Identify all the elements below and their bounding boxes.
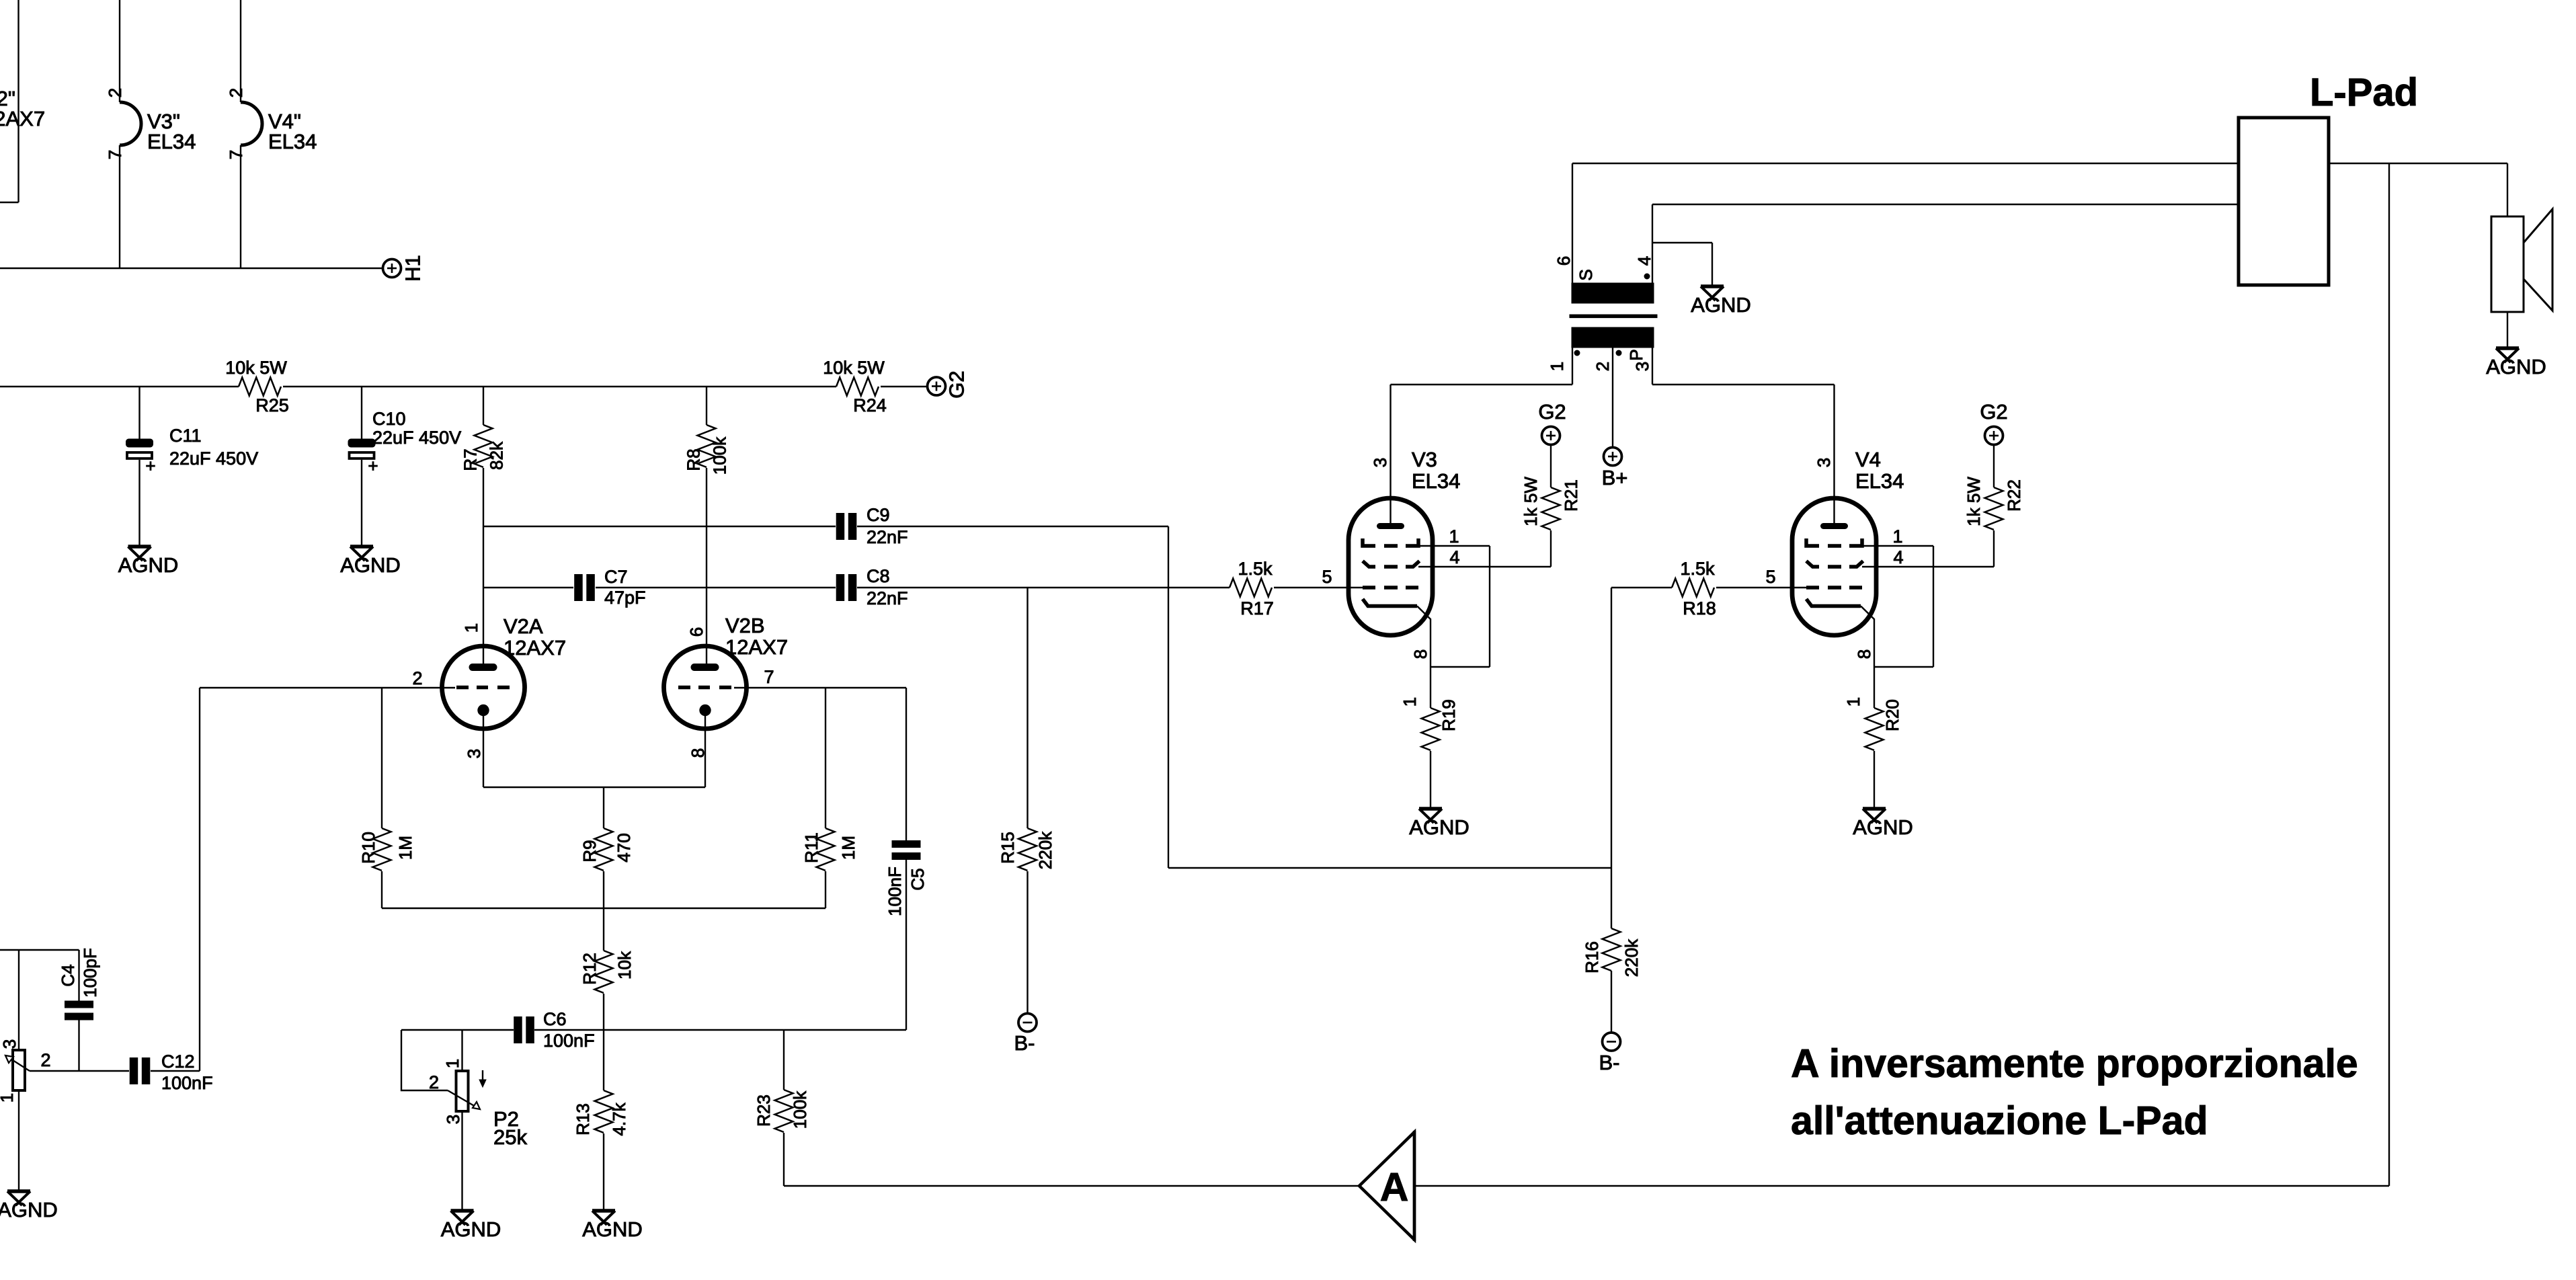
svg-text:+: + <box>145 456 155 476</box>
svg-text:1: 1 <box>442 1059 462 1068</box>
svg-text:22uF 450V: 22uF 450V <box>372 428 461 448</box>
svg-text:4.7k: 4.7k <box>609 1102 629 1135</box>
svg-text:10k 5W: 10k 5W <box>225 358 287 378</box>
svg-text:C7: C7 <box>604 567 628 587</box>
svg-text:12AX7: 12AX7 <box>0 107 45 130</box>
svg-text:4: 4 <box>1449 547 1459 567</box>
svg-text:1: 1 <box>461 623 481 633</box>
svg-text:R12: R12 <box>579 953 600 985</box>
svg-text:8: 8 <box>1410 649 1431 659</box>
svg-text:3: 3 <box>1370 458 1390 467</box>
svg-text:220k: 220k <box>1035 831 1055 869</box>
svg-text:7: 7 <box>226 150 246 159</box>
svg-text:2: 2 <box>1593 362 1613 371</box>
svg-text:C6: C6 <box>543 1009 567 1029</box>
svg-text:22nF: 22nF <box>867 527 908 547</box>
svg-text:10k: 10k <box>614 951 635 979</box>
svg-text:5: 5 <box>1765 567 1775 587</box>
svg-text:C10: C10 <box>372 409 406 429</box>
svg-text:R23: R23 <box>754 1094 774 1127</box>
svg-text:V2B: V2B <box>725 614 765 637</box>
svg-text:8: 8 <box>1854 649 1874 659</box>
svg-text:12AX7: 12AX7 <box>725 635 788 659</box>
svg-text:C9: C9 <box>867 505 890 525</box>
svg-text:2: 2 <box>105 88 125 97</box>
svg-text:1.5k: 1.5k <box>1238 559 1273 579</box>
svg-text:1k 5W: 1k 5W <box>1521 477 1541 526</box>
svg-text:1: 1 <box>1449 526 1459 547</box>
svg-text:7: 7 <box>105 150 125 159</box>
svg-text:R21: R21 <box>1561 479 1581 512</box>
svg-text:EL34: EL34 <box>1412 469 1460 493</box>
svg-text:3: 3 <box>0 1039 19 1049</box>
svg-text:5: 5 <box>1322 567 1332 587</box>
svg-text:AGND: AGND <box>1409 815 1470 839</box>
svg-text:AGND: AGND <box>2486 355 2546 378</box>
svg-text:82k: 82k <box>487 441 507 470</box>
svg-text:1M: 1M <box>838 836 858 860</box>
svg-text:2: 2 <box>429 1072 439 1092</box>
svg-text:22uF 450V: 22uF 450V <box>169 448 258 469</box>
svg-text:3: 3 <box>1632 362 1652 371</box>
svg-text:C11: C11 <box>169 426 202 446</box>
svg-text:220k: 220k <box>1621 938 1642 977</box>
svg-text:R7: R7 <box>460 448 481 471</box>
svg-text:B+: B+ <box>1602 466 1628 489</box>
svg-text:22nF: 22nF <box>867 588 908 608</box>
svg-text:6: 6 <box>1554 256 1574 266</box>
svg-text:P: P <box>1626 349 1646 360</box>
svg-text:12AX7: 12AX7 <box>504 636 566 659</box>
svg-text:R10: R10 <box>358 832 378 864</box>
svg-text:AGND: AGND <box>1853 815 1913 839</box>
svg-text:100k: 100k <box>710 436 730 475</box>
svg-text:H1: H1 <box>401 255 425 282</box>
svg-text:6: 6 <box>686 627 707 637</box>
svg-text:47pF: 47pF <box>604 588 646 608</box>
svg-text:R8: R8 <box>684 448 704 471</box>
svg-text:G2: G2 <box>1980 400 2007 424</box>
svg-text:R9: R9 <box>579 840 600 862</box>
svg-text:10k 5W: 10k 5W <box>823 358 885 378</box>
svg-text:3: 3 <box>1814 458 1834 467</box>
svg-text:470: 470 <box>614 833 634 862</box>
svg-text:C4: C4 <box>58 964 78 986</box>
svg-text:R13: R13 <box>573 1103 593 1135</box>
svg-text:4: 4 <box>1893 547 1903 567</box>
svg-text:AGND: AGND <box>1691 293 1751 317</box>
svg-text:4: 4 <box>1634 256 1654 266</box>
svg-text:AGND: AGND <box>582 1217 643 1241</box>
svg-text:2: 2 <box>412 668 422 688</box>
svg-text:+: + <box>368 456 378 476</box>
svg-text:B-: B- <box>1599 1051 1620 1074</box>
svg-text:2: 2 <box>40 1050 50 1070</box>
svg-text:C8: C8 <box>867 566 890 586</box>
svg-text:S: S <box>1576 269 1596 280</box>
svg-text:V4: V4 <box>1855 448 1881 471</box>
svg-text:1: 1 <box>1547 362 1567 371</box>
svg-text:B-: B- <box>1014 1031 1035 1055</box>
svg-text:R15: R15 <box>998 832 1018 864</box>
svg-text:100pF: 100pF <box>80 948 100 998</box>
svg-text:100nF: 100nF <box>885 867 905 916</box>
svg-text:AGND: AGND <box>118 553 179 577</box>
svg-text:1: 1 <box>1843 697 1863 707</box>
svg-text:3: 3 <box>464 749 484 758</box>
svg-text:AGND: AGND <box>0 1198 58 1222</box>
svg-text:1: 1 <box>0 1093 17 1103</box>
svg-text:R22: R22 <box>2004 479 2024 512</box>
svg-text:1: 1 <box>1892 526 1902 547</box>
svg-text:R25: R25 <box>255 395 289 415</box>
svg-text:2: 2 <box>226 88 246 97</box>
svg-text:R11: R11 <box>801 832 821 863</box>
svg-text:7: 7 <box>764 667 774 687</box>
svg-text:100nF: 100nF <box>543 1031 595 1051</box>
svg-text:R19: R19 <box>1439 699 1459 731</box>
svg-text:EL34: EL34 <box>147 130 196 153</box>
svg-text:V2A: V2A <box>504 614 543 638</box>
svg-text:A inversamente proporzionale: A inversamente proporzionale <box>1791 1041 2358 1086</box>
svg-text:8: 8 <box>688 748 708 758</box>
svg-text:1k 5W: 1k 5W <box>1964 477 1984 526</box>
svg-text:AGND: AGND <box>340 553 401 577</box>
svg-text:100nF: 100nF <box>161 1073 213 1093</box>
svg-text:R18: R18 <box>1683 598 1716 618</box>
svg-text:G2: G2 <box>1538 400 1566 424</box>
svg-text:AGND: AGND <box>441 1217 501 1241</box>
svg-text:L-Pad: L-Pad <box>2310 71 2418 114</box>
svg-text:3: 3 <box>443 1115 463 1124</box>
svg-text:V3: V3 <box>1412 448 1437 471</box>
svg-text:R24: R24 <box>853 395 887 415</box>
svg-text:R16: R16 <box>1582 941 1602 973</box>
svg-text:EL34: EL34 <box>1855 469 1904 493</box>
svg-text:C5: C5 <box>908 868 928 890</box>
svg-text:R17: R17 <box>1240 598 1274 618</box>
svg-text:C12: C12 <box>161 1051 195 1072</box>
svg-text:G2: G2 <box>945 370 969 398</box>
svg-text:1M: 1M <box>395 836 415 860</box>
svg-text:A: A <box>1380 1165 1409 1209</box>
svg-text:1.5k: 1.5k <box>1680 559 1715 579</box>
svg-text:EL34: EL34 <box>268 130 317 153</box>
svg-text:all'attenuazione L-Pad: all'attenuazione L-Pad <box>1791 1098 2208 1143</box>
svg-text:25k: 25k <box>493 1125 527 1149</box>
svg-text:1: 1 <box>1400 697 1420 707</box>
svg-text:R20: R20 <box>1882 699 1902 731</box>
svg-text:100k: 100k <box>790 1090 810 1129</box>
